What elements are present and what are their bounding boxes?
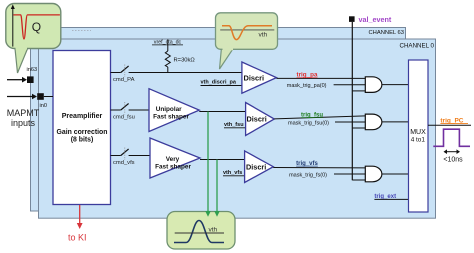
wire mask2 [335, 121, 365, 123]
svg-text:Fast shaper: Fast shaper [155, 163, 191, 170]
node val_event [349, 15, 392, 24]
svg-text:CHANNEL 63: CHANNEL 63 [368, 30, 404, 36]
svg-text:in63: in63 [27, 67, 38, 73]
discriminator U3 (Discri FSU) [246, 103, 275, 136]
wire trig_fsu [274, 116, 365, 119]
svg-text:vth_discri_pa: vth_discri_pa [201, 80, 237, 86]
switch cmd_fsu [113, 102, 135, 121]
svg-text:mask_trig_pa(0): mask_trig_pa(0) [287, 83, 327, 89]
channel 0 box [39, 39, 436, 218]
mux U5 [409, 60, 429, 212]
and gate G3 [365, 166, 382, 182]
input pad in63 [27, 67, 38, 83]
svg-text:<10ns: <10ns [443, 157, 463, 164]
svg-text:vth: vth [209, 226, 218, 233]
wire FSU switch to shaper [129, 109, 149, 111]
wire val branch 2 [352, 127, 365, 129]
switch cmd_PA [113, 65, 135, 84]
svg-text:Gain correction: Gain correction [57, 129, 108, 136]
svg-text:MUX: MUX [410, 129, 426, 136]
svg-text:Discri: Discri [247, 115, 267, 124]
wire VFS row [111, 155, 121, 157]
svg-text:cmd_fsu: cmd_fsu [113, 115, 135, 121]
resistor R=30k [165, 40, 195, 73]
wire trig_pa [277, 77, 366, 79]
channel 63 box [31, 28, 406, 212]
wire trig_PC out [428, 124, 471, 126]
svg-text:Unipolar: Unipolar [156, 106, 182, 113]
svg-text:MAPMT: MAPMT [7, 108, 40, 118]
net trig_PC [440, 117, 468, 124]
svg-text:Preamplifier: Preamplifier [62, 113, 103, 120]
input arrow in63 [7, 77, 27, 83]
callout bubble Q (top left) [6, 4, 61, 74]
width marker <10ns [443, 149, 463, 163]
wire to KI (red arrow) [68, 205, 87, 243]
svg-text:vth_fsu: vth_fsu [224, 122, 244, 128]
svg-text:trig_fsu: trig_fsu [301, 112, 323, 118]
svg-text:Discri: Discri [244, 74, 265, 83]
wire FSU row [111, 109, 121, 111]
svg-text:vth: vth [259, 32, 268, 39]
svg-text:val_event: val_event [359, 15, 392, 24]
svg-text:trig_vfs: trig_vfs [296, 161, 318, 167]
svg-text:(8 bits): (8 bits) [71, 136, 94, 143]
wire G1 out [382, 84, 409, 86]
wire val_event vertical [351, 22, 353, 180]
wire PA to discri [129, 72, 242, 74]
label vth_discri_pa [201, 80, 245, 86]
preamplifier U1 [53, 51, 111, 205]
pulse symbol trig_PC [433, 129, 470, 146]
and gate G2 [365, 114, 382, 130]
wire mask3 [334, 173, 365, 175]
net trig_ext [374, 194, 408, 200]
MAPMT inputs label [7, 108, 40, 128]
wire mask1 [334, 84, 366, 86]
wire val branch 3 [352, 179, 365, 181]
callout box vth pulse (bottom) [167, 212, 235, 250]
svg-text:Very: Very [166, 156, 180, 163]
switch cmd_vfs [113, 148, 135, 167]
discriminator U4 (Discri VFS) [245, 151, 274, 183]
svg-text:4 to1: 4 to1 [411, 137, 426, 144]
svg-text:mask_trig_fs(0): mask_trig_fs(0) [289, 172, 327, 178]
wire val branch 1 [352, 90, 365, 92]
wire FSU to discri [199, 111, 245, 113]
svg-text:cmd_PA: cmd_PA [113, 77, 135, 83]
callout bubble vth (top middle) [216, 13, 278, 69]
svg-text:inputs: inputs [11, 118, 36, 128]
svg-text:in0: in0 [40, 103, 47, 109]
svg-text:trig_pa: trig_pa [297, 71, 318, 78]
svg-text:vth_vfs: vth_vfs [223, 170, 242, 176]
net vref_cta_dc [152, 40, 183, 46]
svg-text:to KI: to KI [68, 233, 87, 243]
discriminator U2 (Discri PA) [242, 62, 277, 93]
svg-text:Q: Q [32, 20, 41, 34]
and gate G1 [365, 77, 382, 93]
svg-text:Fast shaper: Fast shaper [153, 114, 189, 121]
wire PA row [111, 72, 121, 74]
wire trig_vfs [273, 167, 365, 169]
svg-text:mask_trig_fsu(0): mask_trig_fsu(0) [288, 121, 329, 127]
svg-text:R=30kΩ: R=30kΩ [174, 58, 196, 64]
input pad in0 [37, 93, 47, 109]
label vth_fsu [224, 122, 247, 128]
label vth_vfs [223, 170, 246, 176]
shaper A1 (Unipolar Fast shaper) [149, 89, 199, 132]
svg-text:cmd_vfs: cmd_vfs [113, 160, 135, 166]
wire G3 out [382, 173, 409, 175]
shaper A2 (Very Fast shaper) [150, 138, 200, 178]
faint marks [72, 30, 91, 32]
input arrow in0 [7, 94, 37, 100]
svg-text:CHANNEL 0: CHANNEL 0 [400, 43, 435, 50]
wire G2 out [382, 121, 409, 123]
svg-text:Discri: Discri [246, 163, 266, 172]
green arrow 1 (FSU signal tap) [205, 112, 211, 217]
wire VFS switch to shaper [129, 155, 150, 157]
wire in0 to preamp [44, 96, 53, 98]
green arrow 2 (VFS signal tap) [214, 160, 220, 217]
wire VFS to discri [200, 159, 245, 161]
